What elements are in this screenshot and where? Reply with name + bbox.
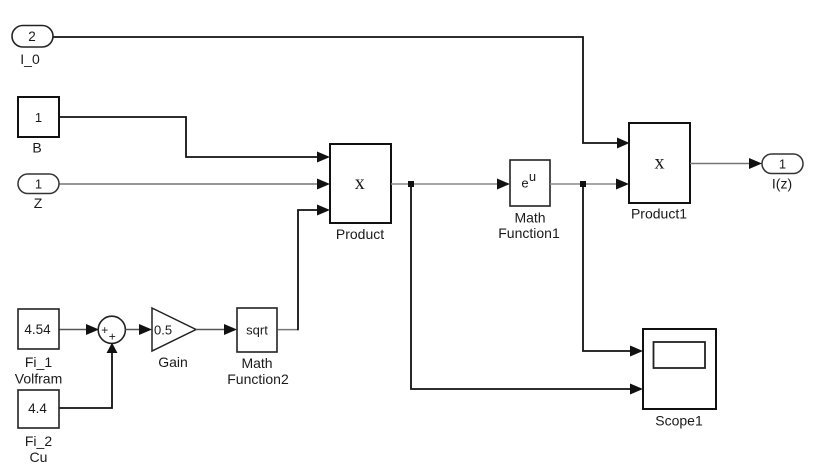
svg-text:Product1: Product1 (631, 206, 687, 222)
svg-text:Fi_2: Fi_2 (25, 433, 52, 449)
wire Product to Math Function1 (391, 183, 498, 185)
svg-text:+: + (109, 330, 116, 344)
svg-text:Gain: Gain (158, 354, 188, 370)
gain block (0.5) (152, 308, 196, 370)
wire Fi_2 up to Sum input 2 (59, 353, 112, 408)
block Scope1 (643, 329, 716, 429)
junction node at Product output (408, 181, 414, 187)
svg-text:4.54: 4.54 (24, 322, 51, 337)
svg-text:I_0: I_0 (20, 51, 40, 67)
svg-text:x: x (355, 172, 365, 194)
svg-text:Function2: Function2 (227, 371, 289, 387)
wire Math Function1 to Product1 input 2 (550, 183, 617, 185)
svg-text:Z: Z (34, 195, 43, 211)
svg-text:e: e (521, 176, 528, 191)
constant B (18, 97, 59, 156)
svg-text:0.5: 0.5 (154, 323, 172, 338)
outport I(z) (762, 154, 803, 192)
constant Fi_1 (4.54) (15, 309, 62, 387)
svg-text:4.4: 4.4 (28, 401, 47, 416)
svg-text:Math: Math (514, 210, 545, 226)
svg-text:+: + (101, 323, 108, 337)
block Math Function2 (sqrt) (227, 308, 289, 387)
wire Product junction down to Scope input 2 (411, 184, 630, 389)
svg-text:Product: Product (336, 226, 384, 242)
wire Product1 to outport I(z) (690, 163, 749, 165)
svg-text:u: u (529, 169, 536, 184)
sum block (98, 316, 125, 344)
wire Math Function1 junction down to Scope input 1 (583, 184, 630, 351)
svg-text:B: B (32, 140, 41, 156)
svg-text:Math: Math (241, 355, 272, 371)
svg-text:Volfram: Volfram (15, 371, 62, 387)
svg-text:1: 1 (779, 157, 786, 172)
svg-text:2: 2 (28, 29, 36, 44)
svg-text:Function1: Function1 (498, 225, 560, 241)
svg-text:sqrt: sqrt (246, 323, 268, 338)
constant Fi_2 (4.4) (18, 390, 59, 465)
svg-text:x: x (655, 152, 665, 174)
svg-text:1: 1 (35, 177, 42, 192)
wire I_0 to Product1 input 1 (53, 37, 617, 143)
inport Z (18, 174, 59, 211)
junction node at Math Function1 output (580, 181, 586, 187)
inport I_0 (12, 26, 53, 68)
svg-text:Fi_1: Fi_1 (25, 354, 52, 370)
wire Gain to Math Function2 (196, 329, 224, 331)
block Product1 (629, 123, 690, 222)
wire Sum to Gain (125, 329, 139, 331)
svg-text:I(z): I(z) (772, 176, 792, 192)
block Product (330, 144, 391, 242)
wire B to Product input 1 (59, 117, 317, 157)
svg-text:Cu: Cu (30, 449, 48, 465)
block Math Function1 (e^u) (498, 160, 560, 241)
wire Math Function2 up to Product input 3 (278, 329, 299, 331)
svg-text:1: 1 (35, 110, 42, 125)
wire Fi_1 to Sum (59, 329, 86, 331)
wire Z to Product input 2 (59, 183, 317, 185)
svg-text:Scope1: Scope1 (655, 413, 703, 429)
